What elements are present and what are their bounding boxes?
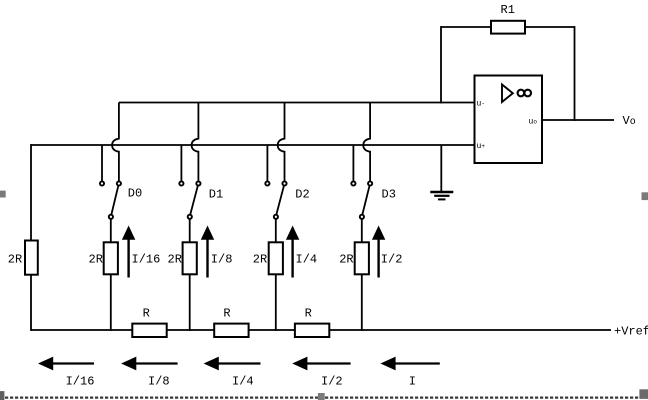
node: D0 right contact [117, 181, 121, 185]
selection handle bottom-right [639, 389, 648, 399]
node: D1 right contact [196, 181, 200, 185]
wire: D3 pole to 2R [361, 219, 363, 242]
current arrow I/2 (up) [372, 226, 385, 278]
node: D1 pole junction [188, 215, 192, 219]
resistor 2R (D2) [269, 242, 283, 274]
svg-text:D0: D0 [128, 187, 142, 201]
resistor R1 [491, 21, 525, 34]
svg-text:I: I [409, 375, 416, 389]
wire: feedback vertical right (from output) [574, 26, 576, 121]
left rail wire (lower bus down to 2R) [30, 144, 32, 240]
current arrow I/16 (up) [122, 226, 135, 278]
selection handle bottom-middle [318, 393, 325, 400]
wire: D3 2R to bottom bus [361, 274, 363, 331]
wire: upper bus (inverting input net) [119, 102, 475, 104]
resistor 2R (D3) [355, 242, 369, 274]
resistor 2R (D0) [104, 242, 118, 274]
wire: op-amp output to Vo [542, 119, 614, 121]
wire: feedback top line right segment [524, 26, 575, 28]
svg-text:I/16: I/16 [132, 253, 161, 267]
svg-text:R: R [305, 307, 312, 321]
node: D2 right contact [282, 181, 286, 185]
svg-text:2R: 2R [89, 253, 103, 267]
svg-text:I/16: I/16 [66, 375, 95, 389]
wire: D2 left contact stub from lower bus [266, 145, 268, 181]
svg-text:2R: 2R [253, 253, 267, 267]
selection handle left-middle [0, 191, 6, 198]
node: D3 pole junction [360, 215, 364, 219]
wire: D0 left contact stub from lower bus [101, 145, 103, 181]
svg-text:D3: D3 [382, 188, 396, 202]
current arrow I (left, bottom row) [380, 357, 439, 371]
node: D2 left contact [265, 181, 269, 185]
switch D2 lever [276, 186, 284, 215]
wire: D0 right contact stub from upper bus with hop over lower bus [112, 103, 119, 182]
svg-text:I/4: I/4 [232, 375, 254, 389]
wire: D3 left contact stub from lower bus [352, 145, 354, 181]
selection handle right-middle [642, 192, 648, 200]
wire: D1 left contact stub from lower bus [180, 145, 182, 181]
svg-text:2R: 2R [339, 253, 353, 267]
ground symbol [430, 192, 453, 199]
svg-text:+Vref: +Vref [614, 325, 648, 339]
svg-text:2R: 2R [8, 253, 22, 267]
svg-text:u-: u- [477, 100, 485, 109]
svg-text:uo: uo [529, 117, 538, 126]
ground wire drop [440, 145, 442, 192]
svg-text:Vo: Vo [623, 114, 636, 128]
svg-text:D1: D1 [209, 188, 223, 202]
wire: feedback vertical left (to inverting input bus) [440, 26, 442, 103]
svg-text:I/4: I/4 [296, 253, 318, 267]
op-amp U1 [475, 76, 543, 164]
svg-text:R: R [223, 307, 230, 321]
resistor R (between D0 and D1) [132, 324, 166, 337]
switch D3 lever [362, 186, 369, 215]
selection dashed border (bottom edge) [0, 397, 648, 399]
wire: feedback top line left segment [441, 26, 492, 28]
node: D3 left contact [351, 181, 355, 185]
wire: D2 2R to bottom bus [275, 274, 277, 331]
resistor 2R (termination, leftmost) [25, 241, 38, 275]
current arrow I/16 (left, bottom row) [38, 357, 94, 371]
svg-text:I/2: I/2 [321, 375, 343, 389]
switch D1 lever [190, 186, 198, 215]
current arrow I/8 (up) [201, 226, 214, 278]
svg-text:u+: u+ [477, 142, 486, 151]
wire: D0 2R to bottom bus [110, 274, 112, 331]
op-amp infinity gain symbol [518, 90, 525, 97]
node: D2 pole junction [274, 215, 278, 219]
wire: D1 2R to bottom bus [189, 274, 191, 331]
wire: D3 right contact stub from upper bus with hop over lower bus [363, 103, 370, 182]
selection handle bottom-left [0, 391, 4, 400]
resistor R (between D1 and D2) [214, 324, 248, 337]
op-amp triangle symbol [502, 85, 513, 103]
svg-text:D2: D2 [295, 188, 309, 202]
svg-text:R1: R1 [501, 3, 515, 17]
switch D0 lever [111, 186, 118, 215]
current arrow I/4 (left, bottom row) [204, 357, 261, 371]
node: D0 pole junction [109, 215, 113, 219]
svg-text:I/2: I/2 [381, 253, 403, 267]
resistor 2R (D1) [183, 242, 197, 274]
node: D3 right contact [368, 181, 372, 185]
wire: D2 right contact stub from upper bus with hop over lower bus [278, 103, 285, 182]
node: D0 left contact [100, 181, 104, 185]
wire: D1 pole to 2R [189, 219, 191, 242]
wire: D1 right contact stub from upper bus with hop over lower bus [192, 103, 199, 182]
wire: lower bus (ground net to non-inverting input) [31, 144, 475, 146]
current arrow I/8 (left, bottom row) [121, 357, 178, 371]
wire: D2 pole to 2R [275, 219, 277, 242]
wire: left rail to bottom bus [30, 275, 32, 331]
current arrow I/4 (up) [286, 226, 299, 278]
wire: D0 pole to 2R [110, 219, 112, 242]
svg-text:2R: 2R [168, 253, 182, 267]
svg-text:I/8: I/8 [211, 253, 233, 267]
wire: bottom bus (+Vref rail) [31, 329, 611, 331]
svg-text:R: R [143, 307, 150, 321]
resistor R (between D2 and D3) [295, 324, 329, 337]
node: D1 left contact [179, 181, 183, 185]
current arrow I/2 (left, bottom row) [292, 357, 350, 371]
svg-text:I/8: I/8 [148, 375, 170, 389]
